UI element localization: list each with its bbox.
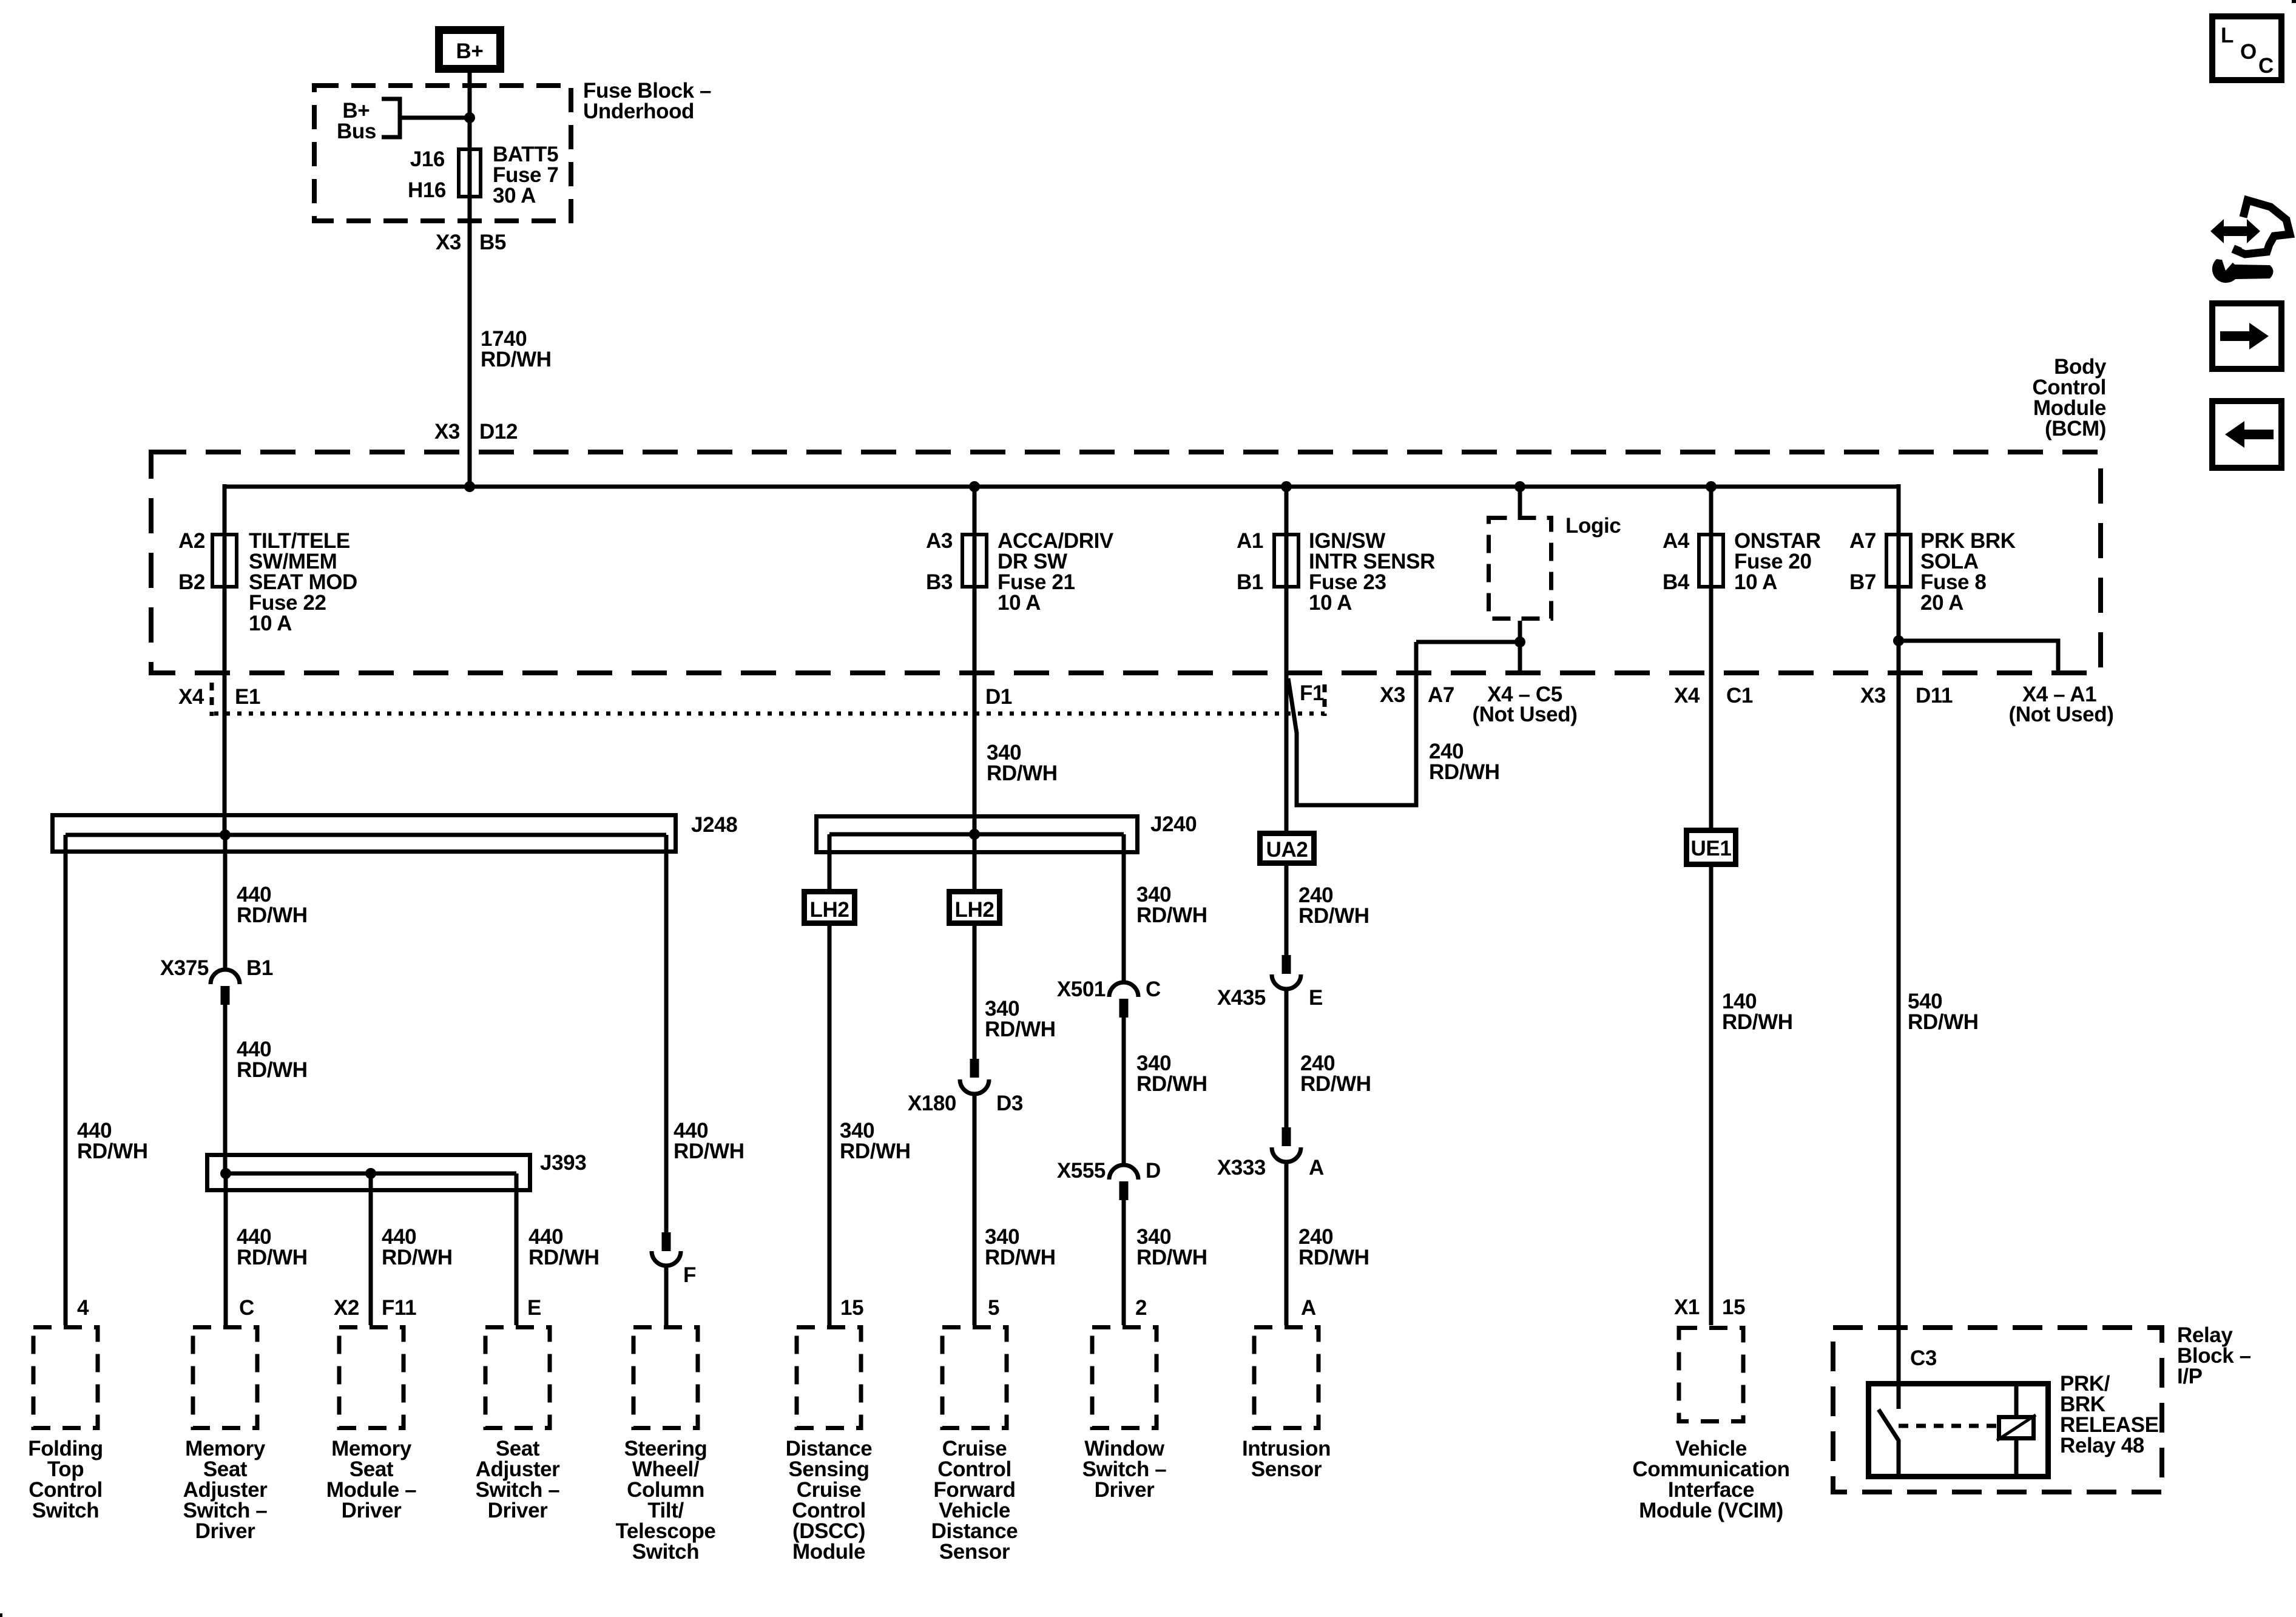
relay coil — [1999, 1417, 2034, 1439]
svg-text:10 A: 10 A — [1734, 570, 1777, 594]
svg-text:X4: X4 — [1674, 684, 1700, 707]
Body Control Module (BCM) box — [151, 452, 2101, 673]
node B+ bus junction — [464, 112, 475, 123]
svg-text:X333: X333 — [1217, 1156, 1266, 1180]
component Steering Wheel Column Tilt Telescope Switch — [633, 1328, 698, 1428]
svg-text:A: A — [1309, 1156, 1324, 1180]
svg-text:30 A: 30 A — [493, 184, 536, 208]
page mark top right — [2292, 0, 2296, 3]
svg-text:4: 4 — [77, 1296, 89, 1320]
terminal LH2 center — [950, 892, 1000, 923]
svg-text:15: 15 — [1722, 1295, 1745, 1319]
svg-text:RD/WH: RD/WH — [987, 761, 1058, 785]
svg-text:J240: J240 — [1150, 812, 1197, 836]
fuse 21 ACCA/DRIV — [962, 535, 987, 587]
svg-text:Logic: Logic — [1565, 514, 1621, 538]
svg-text:15: 15 — [840, 1296, 863, 1320]
svg-text:D1: D1 — [985, 685, 1012, 709]
svg-text:RD/WH: RD/WH — [237, 1246, 308, 1269]
svg-text:X3: X3 — [1380, 683, 1405, 707]
svg-text:F11: F11 — [382, 1296, 416, 1320]
svg-text:E: E — [1309, 986, 1323, 1010]
svg-text:Underhood: Underhood — [583, 100, 694, 123]
wire fuse 22 branch — [223, 484, 227, 835]
wire X555 down — [1122, 1200, 1126, 1325]
svg-text:A1: A1 — [1237, 529, 1263, 553]
svg-text:20 A: 20 A — [1920, 591, 1963, 615]
svg-text:D12: D12 — [479, 420, 518, 444]
node J393 mid — [365, 1168, 376, 1179]
svg-text:LH2: LH2 — [955, 898, 994, 922]
svg-text:RD/WH: RD/WH — [77, 1139, 148, 1163]
svg-text:B3: B3 — [926, 570, 953, 594]
svg-text:C: C — [239, 1296, 254, 1320]
fuse 20 ONSTAR — [1699, 535, 1723, 587]
svg-text:X435: X435 — [1217, 986, 1266, 1010]
wire J240 right branch — [1122, 834, 1126, 982]
connector X435 E — [1282, 955, 1291, 974]
component Window Switch Driver — [1092, 1328, 1156, 1428]
svg-text:LH2: LH2 — [810, 898, 849, 922]
component Memory Seat Module Driver — [339, 1328, 403, 1428]
svg-text:O: O — [2240, 40, 2257, 64]
svg-text:B5: B5 — [479, 231, 506, 254]
svg-text:RD/WH: RD/WH — [528, 1246, 599, 1269]
fuse 22 TILT/TELE — [212, 535, 237, 587]
svg-text:RD/WH: RD/WH — [1722, 1010, 1793, 1034]
svg-text:Driver: Driver — [342, 1499, 402, 1522]
icon repair outline — [2237, 200, 2290, 254]
component Distance Sensing Cruise Control DSCC Module — [797, 1328, 861, 1428]
wire fuse 23 branch — [1285, 487, 1289, 831]
icon wrench — [2212, 259, 2274, 283]
wire J248 center to X375 — [223, 835, 228, 970]
svg-text:10 A: 10 A — [1309, 591, 1352, 615]
svg-text:X375: X375 — [160, 956, 209, 980]
separator X4 — [210, 683, 214, 716]
svg-text:A2: A2 — [178, 529, 205, 553]
svg-text:Switch: Switch — [32, 1499, 99, 1522]
svg-text:B4: B4 — [1663, 570, 1690, 594]
component Memory Seat Adjuster Switch Driver — [193, 1328, 257, 1428]
fuse 23 IGN/SW — [1274, 535, 1298, 587]
svg-text:RD/WH: RD/WH — [1136, 903, 1207, 927]
svg-text:UE1: UE1 — [1691, 837, 1732, 860]
connector X180 D3 — [970, 1059, 979, 1078]
svg-text:5: 5 — [988, 1296, 999, 1320]
wire J248 right branch — [664, 835, 669, 1232]
svg-text:F: F — [683, 1263, 696, 1287]
svg-text:D: D — [1146, 1159, 1161, 1183]
node logic branch — [1514, 636, 1525, 647]
node J248 feed — [220, 829, 231, 840]
component Intrusion Sensor — [1254, 1328, 1319, 1428]
svg-text:A3: A3 — [926, 529, 953, 553]
wire logic to A7/X4-C5 — [1518, 621, 1522, 675]
svg-text:X2: X2 — [334, 1296, 359, 1320]
node bus fuse23 — [1281, 481, 1292, 492]
splice J240 — [817, 817, 1138, 852]
node bus logic — [1514, 481, 1525, 492]
B+ battery terminal — [439, 30, 501, 69]
wire LH2 left down — [828, 926, 832, 1325]
node feed-bus junction — [464, 481, 475, 492]
terminal UE1 — [1687, 831, 1736, 865]
svg-text:RD/WH: RD/WH — [1298, 1246, 1369, 1269]
relay switch blade — [1879, 1409, 1899, 1478]
svg-text:(Not Used): (Not Used) — [2009, 703, 2114, 726]
wire UA2 down — [1285, 866, 1289, 955]
wire UE1 down — [1709, 867, 1714, 1325]
svg-text:D3: D3 — [996, 1092, 1023, 1115]
svg-text:(Not Used): (Not Used) — [1473, 703, 1578, 726]
svg-text:RD/WH: RD/WH — [1908, 1010, 1979, 1034]
icon repair double arrow — [2210, 219, 2260, 243]
svg-text:E: E — [527, 1296, 541, 1320]
relay PRK/BRK RELEASE Relay 48 box — [1869, 1384, 2048, 1477]
component Cruise Control Forward Vehicle Distance Sensor — [942, 1328, 1007, 1428]
svg-text:L: L — [2221, 24, 2234, 47]
fuse BATT5 Fuse 7 30 A — [459, 149, 481, 197]
svg-text:2: 2 — [1135, 1296, 1147, 1320]
logic box — [1489, 518, 1551, 619]
wire LH2 center down — [973, 926, 977, 1059]
node fuse8 branch — [1893, 635, 1904, 646]
relay actuator dashed — [1899, 1424, 1997, 1428]
svg-text:X3: X3 — [434, 420, 460, 444]
svg-text:X1: X1 — [1674, 1295, 1700, 1319]
svg-text:I/P: I/P — [2177, 1365, 2203, 1388]
svg-text:X501: X501 — [1057, 977, 1106, 1001]
svg-text:10 A: 10 A — [249, 612, 292, 635]
svg-text:C: C — [1146, 977, 1161, 1001]
Fuse Block - Underhood box — [314, 86, 571, 221]
icon arrow left box — [2212, 401, 2281, 468]
wire J248 left branch — [64, 835, 68, 1325]
svg-text:F1: F1 — [1300, 681, 1324, 705]
component Folding Top Control Switch — [33, 1328, 98, 1428]
svg-text:B7: B7 — [1849, 570, 1876, 594]
wire fuse 8 branch — [1897, 484, 1901, 1409]
svg-text:Module (VCIM): Module (VCIM) — [1639, 1499, 1783, 1522]
wire X375 to J393 — [223, 1004, 228, 1173]
svg-text:Module: Module — [792, 1540, 865, 1564]
terminal LH2 left — [805, 892, 855, 923]
svg-text:X3: X3 — [1860, 684, 1886, 707]
svg-text:C: C — [2258, 54, 2274, 78]
svg-text:Bus: Bus — [337, 120, 376, 143]
svg-text:RD/WH: RD/WH — [1136, 1246, 1207, 1269]
svg-text:J16: J16 — [410, 147, 445, 171]
node bus fuse20 — [1706, 481, 1717, 492]
svg-text:E1: E1 — [235, 685, 260, 709]
node J240 feed — [969, 829, 980, 840]
terminal UA2 — [1260, 834, 1314, 863]
splice J248 — [53, 815, 676, 852]
svg-text:X555: X555 — [1057, 1159, 1106, 1183]
node bus fuse21 — [969, 481, 980, 492]
svg-text:Relay 48: Relay 48 — [2060, 1434, 2144, 1457]
fuse 8 PRK BRK SOLA — [1886, 535, 1911, 587]
svg-text:A4: A4 — [1663, 529, 1690, 553]
svg-text:B1: B1 — [1237, 570, 1263, 594]
wire J393 right exit — [515, 1173, 519, 1325]
wire J240 center to LH2 — [973, 834, 977, 889]
svg-text:X180: X180 — [908, 1092, 956, 1115]
svg-text:C1: C1 — [1726, 684, 1753, 707]
wire A7 240 RD/WH loop — [1288, 642, 1416, 805]
wire logic stub — [1518, 487, 1522, 516]
svg-text:RD/WH: RD/WH — [985, 1246, 1056, 1269]
svg-text:B+: B+ — [456, 39, 484, 63]
svg-text:RD/WH: RD/WH — [1300, 1072, 1371, 1096]
svg-text:RD/WH: RD/WH — [237, 1058, 308, 1082]
wire X501 down — [1122, 1017, 1126, 1165]
wire J393 mid exit — [369, 1173, 373, 1325]
svg-text:C3: C3 — [1910, 1346, 1937, 1370]
svg-text:Switch: Switch — [632, 1540, 699, 1564]
svg-text:A: A — [1301, 1296, 1316, 1320]
svg-text:Driver: Driver — [488, 1499, 549, 1522]
connector X375 B1 — [211, 970, 240, 984]
svg-text:Sensor: Sensor — [939, 1540, 1010, 1564]
wire BCM internal bus — [223, 485, 1900, 489]
wire fuse 20 branch — [1709, 487, 1714, 828]
connector F steering column — [662, 1232, 671, 1251]
svg-text:Driver: Driver — [1095, 1478, 1155, 1502]
wire B+ feed 1740 RD/WH — [468, 73, 472, 487]
svg-text:Driver: Driver — [195, 1519, 256, 1543]
svg-text:H16: H16 — [408, 178, 446, 202]
wire X333 down — [1285, 1162, 1289, 1325]
svg-text:Sensor: Sensor — [1251, 1457, 1322, 1481]
icon LOC box — [2212, 16, 2281, 80]
svg-text:RD/WH: RD/WH — [1298, 904, 1369, 928]
svg-text:10 A: 10 A — [998, 591, 1041, 615]
svg-text:A7: A7 — [1428, 683, 1454, 707]
svg-text:J248: J248 — [691, 813, 737, 837]
svg-text:UA2: UA2 — [1266, 838, 1308, 862]
connector X501 C — [1109, 982, 1138, 997]
wire X4-A1 stub — [1899, 641, 2058, 675]
Relay Block I/P box — [1833, 1328, 2162, 1492]
component Vehicle Communication Interface Module VCIM — [1679, 1328, 1743, 1422]
component Seat Adjuster Switch Driver — [485, 1328, 550, 1428]
svg-text:A7: A7 — [1849, 529, 1876, 553]
svg-text:J393: J393 — [540, 1151, 586, 1175]
wire J393 left exit — [224, 1173, 228, 1325]
svg-text:(BCM): (BCM) — [2045, 417, 2106, 441]
svg-text:RD/WH: RD/WH — [237, 903, 308, 927]
connector X333 A — [1282, 1127, 1291, 1146]
connector X555 D — [1109, 1165, 1138, 1180]
icon arrow right box — [2212, 303, 2281, 369]
wire F to switch — [664, 1266, 669, 1325]
wire X180 down — [973, 1094, 977, 1325]
B+ Bus bar — [382, 99, 400, 137]
svg-text:RD/WH: RD/WH — [985, 1018, 1056, 1041]
wire X435 down — [1285, 989, 1289, 1127]
svg-text:RD/WH: RD/WH — [382, 1246, 453, 1269]
splice J393 — [208, 1155, 530, 1190]
svg-text:RD/WH: RD/WH — [481, 348, 552, 371]
wire fuse 21 branch — [973, 487, 977, 834]
svg-text:RD/WH: RD/WH — [1429, 760, 1500, 784]
svg-text:X3: X3 — [436, 231, 461, 254]
svg-text:X4: X4 — [178, 685, 204, 709]
svg-text:B2: B2 — [178, 570, 205, 594]
svg-text:RD/WH: RD/WH — [1136, 1072, 1207, 1096]
page mark bottom left — [0, 1613, 2, 1617]
svg-text:RD/WH: RD/WH — [840, 1139, 911, 1163]
wire J240 left to LH2 — [828, 834, 832, 889]
connector face dotted line X4 — [214, 712, 1325, 716]
node J393 feed — [220, 1168, 231, 1179]
wire B+ bus to feed — [400, 116, 470, 120]
svg-text:B1: B1 — [246, 956, 273, 980]
separator F1 — [1323, 684, 1327, 716]
svg-text:D11: D11 — [1916, 684, 1953, 707]
svg-text:RD/WH: RD/WH — [674, 1139, 745, 1163]
